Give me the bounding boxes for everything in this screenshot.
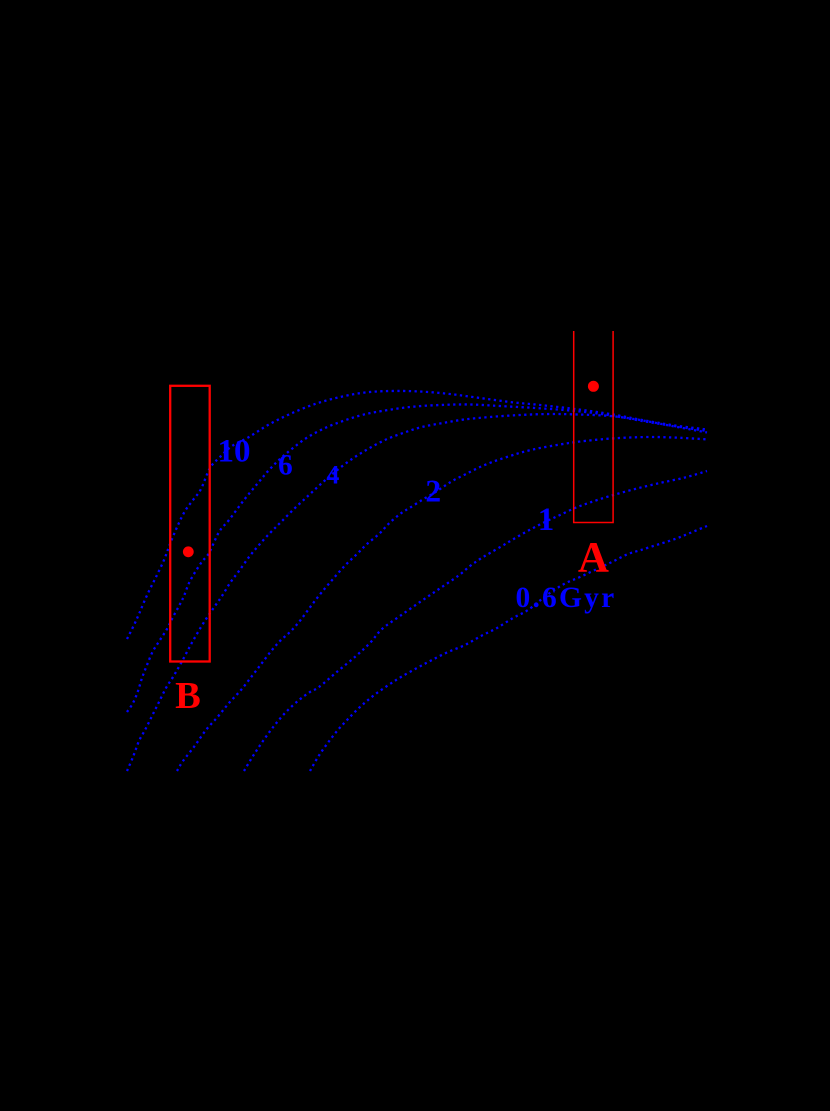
svg-text:0.6Gyr: 0.6Gyr (516, 582, 617, 614)
svg-text:B: B (175, 675, 201, 717)
svg-text:A: A (578, 535, 609, 582)
red box B (170, 386, 210, 662)
svg-text:6: 6 (278, 450, 293, 482)
svg-text:2: 2 (425, 474, 441, 509)
isochrone curve 0.6 Gyr (310, 526, 707, 771)
svg-text:4: 4 (326, 461, 339, 490)
svg-text:10: 10 (218, 434, 251, 470)
isochrone curve 10 Gyr (127, 391, 707, 639)
isochrone curve 2 Gyr (177, 437, 707, 771)
svg-text:1: 1 (538, 502, 555, 538)
red box A (open top) (574, 331, 613, 523)
isochrone curve 1 Gyr (244, 471, 707, 771)
red dot in box A (588, 381, 599, 392)
red dot in box B (183, 546, 194, 557)
isochrone curve 6 Gyr (127, 404, 707, 712)
isochrone curve 4 Gyr (127, 414, 707, 771)
